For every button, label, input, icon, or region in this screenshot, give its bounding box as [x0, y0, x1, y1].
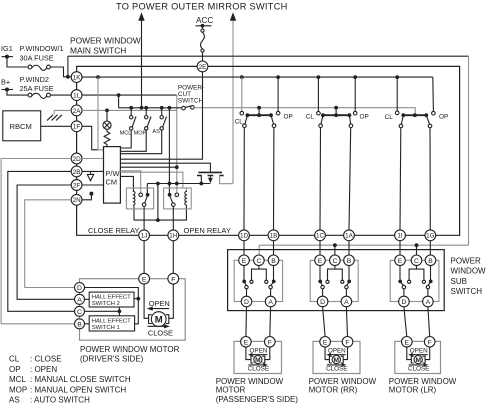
- svg-text:E: E: [318, 258, 323, 265]
- terminal 2D: [71, 153, 82, 164]
- sub switch unit 1 A pole and blade: [271, 282, 274, 285]
- relay K2 coil: [185, 191, 187, 205]
- motor 2 body M: [332, 356, 340, 364]
- node: junction on gray vertical at P/W CM line: [175, 165, 179, 169]
- wire: P/W CM to close relay contact (gray): [120, 171, 140, 193]
- wire: unit3 A to motor3 F: [428, 307, 430, 337]
- svg-text:E: E: [405, 340, 410, 347]
- relay K2 pole: [172, 203, 176, 207]
- sub switch unit 1 terminal D: [241, 296, 252, 307]
- svg-text:2N: 2N: [73, 197, 82, 204]
- motor 1 wires to armature: [246, 347, 251, 360]
- wire: 2F wrap to hall terminal A: [17, 185, 74, 299]
- switch group1 close pole: [245, 115, 248, 124]
- switch group3 CL fixed contact: [396, 77, 398, 111]
- wire: 1F to P/W CM (down at x=91.7): [82, 126, 98, 150]
- sub switch unit 2 terminal A: [341, 296, 352, 307]
- node: bus3 gray tap to P/W CM: [96, 75, 100, 79]
- svg-text:CLOSE: CLOSE: [326, 365, 347, 372]
- svg-text:MOP: MOP: [134, 131, 147, 137]
- terminal 1L: [71, 90, 82, 101]
- svg-text:D: D: [401, 299, 406, 306]
- wire: terminal C to hall commons: [85, 310, 120, 312]
- svg-text:OPEN RELAY: OPEN RELAY: [184, 226, 231, 235]
- motor 3 right arrow + CLOSE label: [409, 364, 426, 366]
- svg-text:MCL: MCL: [9, 375, 26, 384]
- svg-text:B: B: [271, 258, 276, 265]
- wire: open relay pole to 1H: [172, 206, 174, 230]
- wire: 1A to sub unit2 B: [348, 241, 350, 255]
- wire: group2 close pole to 1C: [319, 128, 322, 230]
- wire: 1B to sub unit1 B: [273, 241, 275, 255]
- box: power window motor 1 (gray): [234, 341, 282, 373]
- fuse F2 25A: [28, 93, 32, 97]
- wire: ACC switch to 2E: [202, 52, 204, 61]
- node: bus3 tap group1 CL: [240, 75, 244, 79]
- switch: ACC (ignition) contact: [202, 28, 204, 29]
- antenna mark: open triangle off 2B line: [87, 171, 93, 180]
- wire: fuse F1 to 1K node: [50, 67, 66, 77]
- sub switch unit 3 A pole and blade: [428, 282, 431, 285]
- motor M1 body: [151, 312, 166, 327]
- wire: 2A line right to relay contact vertical (gray): [82, 109, 177, 111]
- wire: 1I to sub unit3 E: [399, 241, 401, 255]
- svg-text:MCL: MCL: [120, 131, 132, 137]
- terminal A (hall): [75, 294, 85, 304]
- wire: unit2 D to motor2 E: [323, 307, 326, 337]
- sub switch unit 3 terminal E: [395, 255, 406, 266]
- svg-text:C: C: [77, 309, 82, 316]
- terminal D (hall): [75, 283, 85, 293]
- wire: lamp feed: [106, 110, 108, 121]
- switch group3 open pole: [426, 115, 429, 124]
- motor 3 terminal F: [424, 337, 435, 348]
- svg-text:1D: 1D: [240, 233, 249, 240]
- relay K1 coil: [133, 191, 135, 205]
- svg-text:E: E: [398, 258, 403, 265]
- node: C2 feed tap: [333, 243, 337, 247]
- terminal 1I: [395, 230, 406, 241]
- wire: group3 open pole to 1G: [429, 128, 431, 230]
- node: bus3 tap group1 OP: [276, 75, 280, 79]
- relay K2: open relay box (gray): [164, 188, 192, 209]
- sub switch unit 1 terminal C: [254, 255, 265, 266]
- switch group1 CL fixed contact: [241, 77, 243, 111]
- node: lamp tap on 2A line: [105, 109, 109, 113]
- wire: terminal D to hall outputs: [85, 288, 139, 324]
- svg-text:2F: 2F: [73, 182, 81, 189]
- node: hall common junction: [118, 309, 122, 313]
- svg-text:: MANUAL OPEN SWITCH: : MANUAL OPEN SWITCH: [30, 385, 126, 394]
- svg-text:1C: 1C: [316, 233, 325, 240]
- svg-text:RBCM: RBCM: [10, 122, 32, 131]
- svg-text:D: D: [320, 299, 325, 306]
- sub switch unit 1 terminal B: [268, 255, 279, 266]
- wire: MCL to P/W CM: [120, 130, 131, 148]
- wire: 1D to sub unit1 E: [243, 241, 245, 255]
- svg-text:E: E: [323, 340, 328, 347]
- switch group2 OP fixed contact: [354, 77, 356, 111]
- svg-text:A: A: [344, 299, 349, 306]
- svg-text:F: F: [268, 340, 272, 347]
- svg-text:1K: 1K: [73, 75, 82, 82]
- switch MCL: manual close switch: [130, 108, 132, 116]
- svg-text:C: C: [256, 258, 261, 265]
- wire: bus1 wrap down right side (gray) to sub switch C feed: [468, 56, 470, 245]
- svg-text:M: M: [334, 357, 340, 364]
- wire: MCL bus (from 1L riser to power cut switch): [119, 107, 182, 109]
- relay K1 pole: [142, 203, 146, 207]
- svg-text:1G: 1G: [426, 233, 435, 240]
- svg-text:E: E: [142, 276, 147, 283]
- wire: power cut output bus (gray) to group3: [194, 108, 415, 114]
- node: MOP tap: [144, 106, 148, 110]
- svg-text:CLOSE: CLOSE: [408, 365, 429, 372]
- svg-text:POWER WINDOW MOTOR: POWER WINDOW MOTOR: [80, 345, 180, 354]
- svg-text:: OPEN: : OPEN: [30, 365, 57, 374]
- node: bus3 tap group2 CL: [317, 75, 321, 79]
- svg-text:: CLOSE: : CLOSE: [30, 355, 62, 364]
- motor 2 right arrow + CLOSE label: [327, 364, 344, 366]
- sub switch unit 2 terminal C: [330, 255, 341, 266]
- svg-text:(DRIVER'S SIDE): (DRIVER'S SIDE): [80, 355, 144, 364]
- svg-text:POWER WINDOW: POWER WINDOW: [70, 36, 141, 46]
- sub switch unit 3 terminal B: [425, 255, 436, 266]
- switch: power cut switch: [182, 106, 186, 110]
- sub switch unit 2 C contact fork: [328, 266, 343, 281]
- svg-text:CL: CL: [306, 113, 315, 120]
- node: junction on gray vertical at MOSFET drain line: [175, 182, 179, 186]
- svg-text:1L: 1L: [73, 93, 81, 100]
- sub switch unit 2 D pole and blade: [320, 282, 322, 285]
- box: driver motor assembly (gray): [80, 279, 186, 341]
- svg-text:MOTOR (LR): MOTOR (LR): [389, 386, 437, 395]
- svg-text:1I: 1I: [397, 233, 403, 240]
- motor M1 left bracket: [149, 315, 152, 324]
- svg-text:P.WINDOW/1: P.WINDOW/1: [20, 44, 64, 53]
- wire: MOP to P/W CM: [120, 130, 146, 151]
- terminal 1K: [71, 72, 82, 83]
- resistor R1: [104, 129, 110, 146]
- wire: 2B wrap to hall terminal C: [8, 171, 74, 311]
- wire: 2D wrap to hall terminal B (gray): [1, 159, 74, 324]
- terminal 1G: [425, 230, 436, 241]
- svg-text:2A: 2A: [73, 108, 82, 115]
- sub switch unit 3 E contact: [399, 266, 401, 280]
- wire: 2A line to ground (gray): [54, 109, 71, 111]
- svg-text:A: A: [77, 297, 82, 304]
- svg-text:1J: 1J: [141, 233, 148, 240]
- svg-text:CM: CM: [106, 178, 118, 187]
- sub switch unit 2 A pole and blade: [347, 282, 350, 285]
- svg-text:ACC: ACC: [196, 16, 213, 25]
- wire: 1G to sub unit3 B: [429, 241, 431, 255]
- sub switch unit 2 terminal D: [317, 296, 328, 307]
- svg-text:MAIN SWITCH: MAIN SWITCH: [70, 46, 126, 56]
- svg-text:AS: AS: [152, 129, 160, 135]
- svg-text:F: F: [428, 340, 432, 347]
- wire: bus1 (IG1 power) top horizontal: [68, 55, 469, 57]
- svg-text:E: E: [242, 258, 247, 265]
- node: group2 bar feed: [334, 106, 338, 110]
- svg-text:HALL EFFECT: HALL EFFECT: [92, 295, 131, 301]
- wire: group1 close pole to 1D: [243, 128, 245, 230]
- terminal 1H: [168, 230, 179, 241]
- svg-text:CLOSE: CLOSE: [248, 365, 269, 372]
- sub switch unit 1 terminal A: [265, 296, 276, 307]
- node: B+ feed: [2, 89, 14, 91]
- wire: open relay pole feed from MCL bus: [168, 108, 170, 194]
- ground: [53, 110, 55, 114]
- motor 3 brackets: [411, 356, 425, 363]
- svg-text:25A FUSE: 25A FUSE: [20, 84, 54, 93]
- box: power window motor 3 (gray): [395, 341, 441, 373]
- svg-text:1A: 1A: [345, 233, 354, 240]
- fuse F1 30A: [28, 65, 32, 69]
- wire: unit2 A to motor2 F: [346, 307, 347, 337]
- wire: riser from 1L junction to MCL bus: [118, 95, 120, 108]
- svg-text:CLOSE RELAY: CLOSE RELAY: [88, 226, 140, 235]
- sub switch unit 3 terminal A: [423, 296, 434, 307]
- wire: fuse F2 to 1L: [50, 94, 70, 96]
- svg-text:A: A: [426, 299, 431, 306]
- wire: arrow to mirror switch (right, gray, to MOSFET source): [232, 20, 234, 108]
- wire: 1C to sub unit2 E: [319, 241, 321, 255]
- motor 2 terminal F: [342, 337, 353, 348]
- wire: 2F line into P/W CM: [82, 184, 104, 186]
- wire: close relay pole to 1J: [143, 206, 145, 230]
- motor 2 terminal E: [320, 337, 331, 348]
- box: P/W CM control module: [104, 147, 121, 204]
- svg-text:M: M: [155, 315, 163, 326]
- relay K1: close relay box (gray): [126, 188, 153, 209]
- sub switch unit 1 B contact: [273, 266, 275, 280]
- wire: B+ to fuse F2: [7, 90, 28, 96]
- wire: terminal B to hall1 input: [85, 323, 90, 325]
- node: IG1 feed: [2, 56, 14, 58]
- svg-text:1B: 1B: [270, 233, 278, 240]
- svg-text:D: D: [244, 299, 249, 306]
- motor 1 terminal E: [241, 337, 252, 348]
- node: 1K input junction: [66, 75, 70, 79]
- sub switch unit 3 C contact fork: [409, 266, 424, 281]
- svg-text:SWITCH 2: SWITCH 2: [92, 301, 120, 307]
- motor 1 right arrow + CLOSE label: [248, 364, 265, 366]
- terminal 1J: [139, 230, 150, 241]
- wire: vertical from 1L line down to open relay contact (gray): [176, 95, 178, 193]
- box: sub switch unit 1 outline (gray, terminals on edges): [234, 260, 282, 301]
- sub switch unit 3 D pole and blade: [400, 282, 403, 285]
- node: group1 bar feed: [257, 106, 261, 110]
- wire: 2N wrap to hall terminal D (gray): [25, 200, 74, 288]
- svg-text:CLOSE: CLOSE: [148, 328, 173, 337]
- sub switch unit 2 terminal B: [344, 255, 355, 266]
- terminal 2A: [71, 105, 82, 116]
- wire: relay coils common riser: [157, 184, 159, 221]
- node: bus3 tap group3 CL: [395, 75, 399, 79]
- switch group2 CL fixed contact: [317, 77, 319, 111]
- svg-text:A: A: [268, 299, 273, 306]
- wire: drain line drop to close relay fixed dot: [146, 184, 148, 194]
- motor 3 body M: [414, 356, 422, 364]
- node: mirror switch arrow tap: [140, 106, 144, 110]
- svg-text:P.WIND2: P.WIND2: [20, 75, 49, 84]
- motor 2 brackets: [329, 356, 343, 363]
- wire: 2D line into P/W CM (gray): [82, 158, 104, 160]
- svg-text:WINDOW: WINDOW: [451, 267, 487, 276]
- wire: P/W CM to close relay coil: [120, 176, 133, 191]
- wire: P/W CM to open relay coil (gray): [120, 172, 186, 191]
- box: hall effect switch 1: [89, 316, 134, 331]
- box: RBCM: [3, 111, 41, 141]
- wire: unit1 A to motor1 F: [269, 307, 272, 337]
- svg-text:CL: CL: [235, 118, 244, 125]
- node: AS tap: [160, 106, 164, 110]
- wire: 1J to driver motor E: [143, 241, 145, 274]
- svg-text:1H: 1H: [169, 233, 178, 240]
- node: hall output junction: [136, 297, 140, 301]
- switch MOP: manual open switch: [145, 108, 147, 116]
- terminal 1B: [268, 230, 279, 241]
- sub switch unit 1 E contact: [243, 266, 245, 280]
- sub switch unit 3 terminal D: [399, 296, 410, 307]
- terminal 1A: [344, 230, 355, 241]
- wire: hall2 output: [134, 298, 138, 300]
- node: relay tie tap: [156, 182, 160, 186]
- sub switch unit 2 terminal E: [315, 255, 326, 266]
- wire: bus3 (1K output): [82, 76, 433, 78]
- wire: group3 close pole to 1I: [399, 128, 402, 230]
- svg-text:SWITCH: SWITCH: [178, 97, 204, 104]
- box: sub switch unit 2 outline (gray, terminals on edges): [310, 260, 358, 301]
- relay K1 fixed contact (dot): [146, 193, 150, 197]
- wire: terminal A to hall2 input: [85, 298, 90, 300]
- node: MCL tap: [129, 106, 133, 110]
- svg-text:2B: 2B: [73, 169, 81, 176]
- svg-text:OP: OP: [9, 365, 21, 374]
- terminal C (hall): [75, 306, 85, 316]
- motor 2 wires to armature: [325, 347, 329, 360]
- switch group2 open pole: [349, 115, 350, 124]
- svg-text:E: E: [244, 340, 249, 347]
- sub switch unit 2 E contact: [319, 266, 321, 280]
- svg-text:MOP: MOP: [9, 385, 27, 394]
- terminal B (hall): [75, 319, 85, 329]
- wire: IG1 to fuse F1: [7, 57, 28, 67]
- box: power window sub switch assembly: [228, 250, 445, 311]
- wire: P/W CM to 2A vertical junction: [120, 166, 176, 168]
- svg-text:B+: B+: [1, 78, 10, 87]
- svg-text:CL: CL: [385, 114, 394, 121]
- box: sub switch unit 3 outline (gray, terminals on edges): [390, 260, 439, 301]
- wire: unit3 D to motor3 E: [404, 307, 407, 337]
- wire: relay coil tie line: [134, 206, 186, 220]
- svg-text:SUB: SUB: [451, 277, 467, 286]
- svg-text:TO POWER OUTER MIRROR SWITCH: TO POWER OUTER MIRROR SWITCH: [116, 1, 288, 11]
- switch group1 (passenger) bar: [247, 114, 271, 116]
- wire: RBCM to 1F: [41, 125, 71, 127]
- svg-text:D: D: [77, 285, 82, 292]
- svg-text:: AUTO SWITCH: : AUTO SWITCH: [30, 396, 90, 405]
- svg-text:OP: OP: [360, 113, 369, 120]
- terminal F (driver motor): [168, 273, 179, 284]
- label: CLOSE with right arrow: [148, 325, 168, 327]
- svg-text:B: B: [77, 322, 82, 329]
- wire: group2 open pole to 1A: [349, 128, 351, 230]
- wire: bus1 riser from 1K node: [67, 56, 69, 77]
- motor 1 body M: [254, 356, 262, 364]
- svg-text:M: M: [255, 357, 261, 364]
- terminal 2E (on top edge): [197, 61, 208, 72]
- sub switch unit 3 terminal C: [411, 255, 422, 266]
- switch group3 OP fixed contact: [432, 111, 436, 115]
- switch group2 close pole: [321, 115, 323, 124]
- terminal 2B: [71, 166, 82, 177]
- svg-text:SWITCH: SWITCH: [451, 287, 483, 296]
- motor M1: driver window motor: [144, 284, 149, 318]
- svg-text:M: M: [415, 357, 421, 364]
- svg-text:C: C: [332, 258, 337, 265]
- node: open relay feed tap: [168, 106, 172, 110]
- sub switch unit 1 D pole and blade: [244, 282, 246, 285]
- svg-text:POWER: POWER: [451, 256, 481, 265]
- svg-text:OP: OP: [439, 113, 448, 120]
- wire: 1H to driver motor F: [172, 241, 174, 274]
- switch group3 (LR) bar: [403, 114, 426, 116]
- box: power window main switch assembly: [77, 66, 460, 235]
- svg-text:MOTOR (RR): MOTOR (RR): [309, 386, 358, 395]
- node: C3 feed tap: [415, 243, 419, 247]
- relay K2 blade: [170, 195, 173, 203]
- switch group3 close pole: [401, 115, 403, 124]
- relay K1 fixed contact (open): [139, 193, 143, 197]
- terminal 1D: [239, 230, 250, 241]
- switch group2 (RR) bar: [323, 114, 350, 116]
- svg-text:B: B: [347, 258, 352, 265]
- terminal 1F: [71, 121, 82, 132]
- svg-text:1F: 1F: [73, 124, 81, 131]
- node: 1L line junction: [117, 93, 121, 97]
- wire: AS to P/W CM: [120, 130, 161, 154]
- wire: 1L line to MCL bus riser: [82, 94, 177, 96]
- box: hall effect switch 2: [89, 292, 134, 307]
- box: power window motor 2 (gray): [313, 341, 360, 373]
- svg-text:30A FUSE: 30A FUSE: [20, 54, 54, 63]
- svg-text:OP: OP: [284, 114, 293, 121]
- svg-text:SWITCH 1: SWITCH 1: [92, 325, 120, 331]
- node: open relay pole feed tap: [168, 182, 172, 186]
- transistor Q1 source lead to gray mirror line: [220, 176, 233, 184]
- svg-text:2D: 2D: [73, 156, 82, 163]
- wire: unit1 D to motor1 E: [245, 307, 248, 337]
- wire: group1 open pole to 1B: [273, 128, 275, 230]
- relay K2 fixed contact (dot): [168, 193, 172, 197]
- sub switch unit 3 B contact: [430, 266, 432, 280]
- transistor Q1 channel segments: [197, 175, 224, 177]
- wire: P/W CM to MOSFET gate: [120, 163, 210, 171]
- svg-text:B: B: [428, 258, 433, 265]
- terminal 2N: [71, 194, 82, 205]
- svg-text:(PASSENGER'S SIDE): (PASSENGER'S SIDE): [216, 395, 299, 404]
- motor 3 wires to armature: [407, 347, 412, 360]
- svg-text:F: F: [345, 340, 349, 347]
- sub switch unit 1 terminal E: [239, 255, 250, 266]
- motor M1 right bracket: [166, 315, 169, 324]
- wire: MOSFET drain line to relays: [147, 183, 210, 185]
- svg-text:MOTOR: MOTOR: [216, 386, 246, 395]
- svg-text:CL: CL: [9, 355, 20, 364]
- wire: 2E sense line down to P/W CM: [120, 72, 202, 159]
